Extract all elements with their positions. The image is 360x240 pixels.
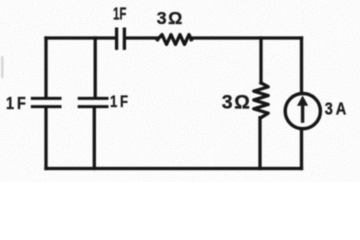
wire bottom [46,167,302,170]
wire second branch lower [93,108,96,168]
wire current-source branch upper [300,38,303,92]
wire left branch lower [44,108,47,168]
current source 3A circle [285,94,320,129]
wire left branch upper [44,38,47,97]
wire resistor branch lower [258,118,261,169]
current source arrow [297,96,308,123]
wire second branch upper [94,38,97,97]
svg-text:1 F: 1 F [110,92,128,111]
capacitor 1F (left branch) [32,98,60,106]
wire top middle segment [127,38,158,40]
wire current-source branch lower [300,130,303,169]
svg-text:1 F: 1 F [6,93,26,113]
wire top-left segment [46,36,115,39]
resistor 3ohm (top) [158,35,192,45]
svg-text:3 Ω: 3 Ω [157,8,183,28]
wire resistor branch upper [259,38,262,83]
resistor 3ohm (vertical) [254,83,268,118]
capacitor 1F series (top) [117,29,125,48]
wire top-right segment [191,38,301,40]
capacitor 1F (second branch) [79,98,107,106]
svg-text:3 Ω: 3 Ω [222,93,250,114]
svg-text:1F: 1F [113,4,127,24]
svg-text:3 A: 3 A [325,98,347,118]
